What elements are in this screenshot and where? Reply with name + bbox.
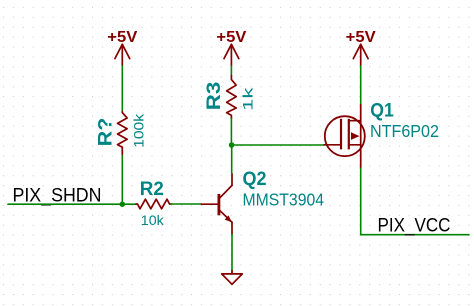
svg-text:1k: 1k — [240, 86, 256, 111]
svg-text:Q1: Q1 — [370, 100, 394, 122]
wire — [121, 66, 123, 112]
svg-text:R3: R3 — [203, 82, 225, 111]
ground — [222, 271, 243, 285]
power +5V (right) — [346, 29, 376, 66]
wire — [171, 203, 201, 205]
svg-text:NTF6P02: NTF6P02 — [370, 121, 439, 141]
svg-text:+5V: +5V — [346, 29, 376, 46]
resistor R2 10k — [136, 178, 171, 229]
svg-text:R?: R? — [94, 118, 116, 147]
wire — [121, 155, 123, 204]
wire — [232, 144, 324, 146]
wire — [231, 235, 233, 271]
wire — [361, 168, 469, 234]
mosfet Q1 NTF6P02 (P-channel) — [324, 100, 439, 169]
junction — [229, 142, 235, 148]
svg-text:R2: R2 — [140, 178, 164, 200]
power +5V (middle) — [216, 29, 246, 66]
resistor R3 1k — [203, 76, 256, 119]
svg-text:Q2: Q2 — [243, 168, 267, 190]
wire — [231, 145, 233, 174]
wire — [360, 66, 362, 105]
svg-text:PIX_SHDN: PIX_SHDN — [13, 185, 102, 207]
wire — [230, 66, 232, 76]
svg-text:10k: 10k — [141, 213, 165, 229]
wire — [8, 203, 136, 205]
transistor Q2 MMST3904 (NPN) — [201, 168, 324, 234]
svg-text:+5V: +5V — [216, 29, 246, 46]
resistor R? 100k — [94, 112, 147, 156]
svg-text:100k: 100k — [131, 113, 147, 148]
junction — [120, 201, 126, 207]
svg-text:+5V: +5V — [107, 29, 137, 46]
svg-text:MMST3904: MMST3904 — [243, 189, 325, 209]
power +5V (left) — [107, 29, 137, 66]
wire — [230, 118, 232, 145]
svg-text:PIX_VCC: PIX_VCC — [378, 214, 451, 236]
